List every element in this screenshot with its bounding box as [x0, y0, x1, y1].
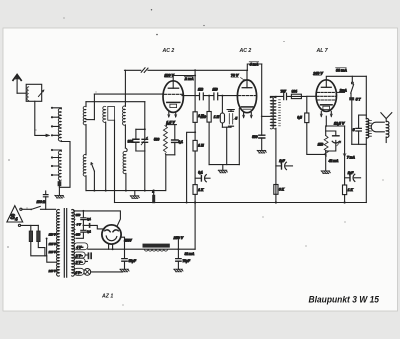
grid resistor 200 — [208, 96, 210, 112]
resistor 3K — [274, 185, 278, 195]
oscillator coil A — [85, 102, 87, 107]
decoupling resistor 1M (middle) — [193, 140, 197, 151]
antenna — [16, 76, 18, 93]
antenna coupling box — [26, 84, 42, 101]
reservoir cap 50uF — [122, 259, 127, 262]
svg-text:AZ 1: AZ 1 — [101, 294, 113, 300]
common return wire with ground — [209, 164, 239, 166]
ground on return wire — [134, 191, 136, 196]
svg-text:150: 150 — [318, 142, 324, 146]
series blocking cap in ground stem — [58, 180, 60, 181]
svg-text:50µF: 50µF — [129, 259, 137, 263]
ground (band coils) — [55, 195, 64, 198]
svg-text:0 V: 0 V — [77, 222, 81, 226]
tuned-circuit return wire — [86, 190, 165, 192]
svg-text:100 Ω: 100 Ω — [37, 200, 46, 204]
loudspeaker secondary loop — [371, 122, 384, 132]
resistor 1K (output stage) — [343, 185, 347, 195]
top coupling wire — [125, 69, 248, 71]
output transformer primary line — [365, 76, 367, 119]
svg-text:4 V~: 4 V~ — [75, 246, 83, 250]
4V rectifier heater winding box — [74, 243, 88, 250]
V3 anode lead to output transformer — [326, 76, 366, 80]
grid wire to first tube — [94, 93, 163, 95]
tuning coil C with core box — [103, 106, 106, 122]
svg-text:1: 1 — [152, 189, 154, 193]
V3 anode — [321, 86, 331, 88]
bias feed line with 7mA — [344, 126, 346, 185]
AF takeoff cap 1uF — [276, 165, 281, 167]
svg-text:5: 5 — [235, 116, 237, 120]
tube V3 AL7 envelope — [316, 80, 336, 112]
svg-text:110: 110 — [213, 88, 218, 92]
drop to ground with 42mA — [325, 151, 327, 171]
svg-text:0,1: 0,1 — [198, 170, 203, 174]
tap from coil A to grid line vertical — [86, 119, 94, 121]
cap 500 to ground — [259, 135, 265, 138]
join and drop to return wire — [165, 154, 174, 155]
wire coil B bottom to return bus — [85, 176, 87, 191]
line continues below bus to B+ feed — [194, 203, 196, 250]
transformer secondary — [72, 210, 75, 277]
V2 anode loop up to IF transformer — [247, 64, 261, 70]
anode feed down to IF primary — [261, 64, 263, 135]
svg-text:113: 113 — [198, 88, 203, 92]
anode load resistor 1M (upper) — [194, 70, 196, 112]
OT primary winding — [366, 119, 368, 138]
svg-text:AC 2: AC 2 — [162, 48, 175, 54]
cathode bypass cap — [172, 140, 179, 142]
svg-text:200: 200 — [200, 115, 207, 119]
wire box to band switch — [35, 101, 47, 135]
join and drop to cathode return — [222, 126, 231, 128]
2V winding boxes — [74, 252, 85, 258]
cathode bypass electrolytic — [326, 131, 336, 136]
padder branch: fixed cap 300 + trimmer — [144, 102, 146, 130]
svg-text:2 mA: 2 mA — [184, 77, 194, 81]
antenna band coil L1 (upper) with taps — [52, 108, 61, 109]
svg-text:0,1: 0,1 — [178, 140, 183, 144]
capacitor 300 — [135, 129, 137, 151]
V3 heater legs — [321, 111, 331, 116]
HT smoothing cap chain — [76, 211, 83, 238]
V3 cathode — [321, 104, 333, 106]
field coil / choke — [143, 244, 170, 248]
series cap from tuned return to mains — [45, 191, 47, 194]
tone switch branch — [351, 76, 353, 82]
switch blade — [31, 206, 40, 209]
resistor 1K (lower) — [193, 185, 197, 195]
antenna band coil L2 (lower) with taps — [52, 150, 61, 151]
V3 grids (dashed) — [317, 91, 335, 93]
svg-text:450V: 450V — [123, 239, 132, 243]
mains plug triangle — [7, 206, 23, 222]
coil C legs down to return wire / bus — [105, 122, 107, 191]
IF top wire to V3 grid — [270, 96, 306, 97]
feedthrough bead on bus — [152, 195, 155, 203]
svg-text:3 K: 3 K — [279, 188, 285, 192]
V1 cathode — [167, 101, 180, 103]
grid stopper resistor — [291, 94, 301, 98]
svg-text:2mA: 2mA — [339, 88, 348, 92]
svg-text:0,1: 0,1 — [87, 217, 91, 221]
svg-text:4 mA: 4 mA — [249, 63, 259, 67]
svg-text:1 M: 1 M — [198, 144, 204, 148]
svg-text:32 mA: 32 mA — [185, 252, 195, 256]
V3 screen stub — [336, 91, 344, 93]
4V dial lamp winding — [74, 268, 84, 275]
mains switch upper contact — [20, 208, 22, 210]
V1 grid (dashed) — [165, 93, 183, 95]
V2 anode — [242, 87, 252, 89]
wire coil A top to padder branch — [86, 101, 145, 103]
coil E (lower on same line) — [125, 148, 127, 151]
interstage coupling: series cap 1 — [200, 93, 204, 100]
svg-text:240 V: 240 V — [312, 72, 323, 76]
svg-text:350: 350 — [76, 233, 81, 237]
svg-text:180 V: 180 V — [165, 74, 175, 78]
svg-text:1 K: 1 K — [348, 188, 354, 192]
wire L1 bottom to bracket — [60, 140, 62, 143]
V2 cathode lead down — [238, 109, 240, 165]
V2 cathode — [242, 106, 253, 108]
cathode resistor 150 zigzag — [325, 126, 327, 136]
svg-text:42 mA: 42 mA — [328, 159, 339, 163]
svg-text:300: 300 — [128, 140, 134, 144]
V1 anode lead to resistor chain — [173, 76, 195, 81]
right bracket wire around band coils — [59, 142, 70, 188]
svg-text:4: 4 — [14, 216, 18, 221]
V1 heater legs — [169, 112, 176, 117]
svg-text:0,5: 0,5 — [297, 115, 302, 119]
svg-text:AC 2: AC 2 — [239, 48, 252, 54]
dial lamp — [84, 269, 91, 276]
ground stem — [58, 186, 60, 195]
svg-text:110 V: 110 V — [49, 233, 56, 237]
svg-text:500: 500 — [252, 135, 258, 139]
series cap in IF output — [284, 93, 287, 99]
svg-text:1 K: 1 K — [198, 188, 204, 192]
svg-text:5: 5 — [353, 128, 355, 132]
band switch wiper at coil B — [92, 164, 95, 171]
oscillator coil D (on x=125.4) — [124, 70, 126, 106]
svg-text:70µF: 70µF — [183, 259, 191, 263]
series cap 2 — [214, 93, 218, 100]
coil in box — [27, 87, 29, 101]
fuse resistors — [31, 225, 39, 231]
coil B (lower) — [83, 155, 86, 177]
HT winding to rectifier anode 1 — [73, 211, 120, 226]
svg-text:220 V: 220 V — [48, 250, 56, 254]
svg-text:904: 904 — [292, 90, 298, 94]
V2 heater legs — [244, 113, 252, 118]
bypass cap 1uF on bias line — [345, 177, 350, 179]
cathode resistor 500 (zigzag) — [163, 126, 167, 153]
svg-text:1 M: 1 M — [214, 115, 220, 119]
screen decoupling wire to bus — [187, 132, 196, 202]
svg-text:30 mA: 30 mA — [336, 69, 347, 73]
power transformer primary — [57, 210, 60, 277]
speaker cap branch — [359, 115, 367, 128]
AZ1 filament legs — [109, 244, 113, 249]
svg-text:350: 350 — [76, 213, 81, 217]
trimmer capacitor — [144, 129, 146, 151]
V1 anode — [168, 87, 178, 89]
V2 grid (dashed) — [238, 95, 255, 97]
speaker cone fork — [381, 113, 392, 122]
AVC component — [227, 110, 234, 112]
heater/B+ line to field coil — [88, 248, 195, 250]
svg-text:12,5 V: 12,5 V — [334, 121, 345, 125]
wire antenna to input box — [17, 92, 26, 94]
svg-text:2 V~: 2 V~ — [75, 254, 83, 258]
V3 grid lead and grid leak 0,5 — [307, 96, 316, 113]
svg-text:0,1: 0,1 — [87, 230, 91, 234]
IF secondary bottom to detector load — [275, 128, 277, 202]
svg-text:AL 7: AL 7 — [316, 48, 329, 54]
svg-text:Blaupunkt 3 W 15: Blaupunkt 3 W 15 — [309, 295, 380, 306]
HT secondary tap stubs and labels — [73, 215, 76, 235]
svg-text:707: 707 — [281, 90, 287, 94]
svg-text:4 V~: 4 V~ — [74, 271, 82, 275]
IF transformer — [270, 97, 273, 129]
main B+ bus — [115, 202, 367, 204]
V1 cathode network wire — [166, 124, 176, 126]
AZ1 cathode output — [121, 237, 124, 258]
rectifier tube AZ1 — [102, 225, 121, 244]
OT core ticks — [369, 121, 372, 137]
svg-text:70 V: 70 V — [231, 73, 239, 77]
svg-text:500: 500 — [154, 138, 160, 142]
tube V1 AC2 envelope — [163, 81, 183, 113]
bottom join wire — [352, 143, 367, 145]
svg-text:240 V: 240 V — [48, 269, 56, 273]
HT lead to rectifier anode 2 — [83, 224, 88, 226]
transformer core — [64, 209, 66, 278]
tone cap (block) — [349, 97, 354, 100]
svg-text:7 mA: 7 mA — [347, 156, 355, 160]
decoupling cap 0,1 to ground — [195, 177, 201, 179]
trimmer arrow in box — [38, 90, 43, 96]
speaker voice coil — [386, 121, 389, 137]
svg-text:2 V~: 2 V~ — [75, 260, 83, 264]
mains lower contact — [18, 224, 20, 226]
V3 cathode node — [325, 116, 327, 126]
tube V2 AC2 envelope — [237, 80, 256, 113]
grid leak 1M (oval) — [221, 96, 223, 113]
diagonal capacitor in top wire — [141, 68, 148, 73]
